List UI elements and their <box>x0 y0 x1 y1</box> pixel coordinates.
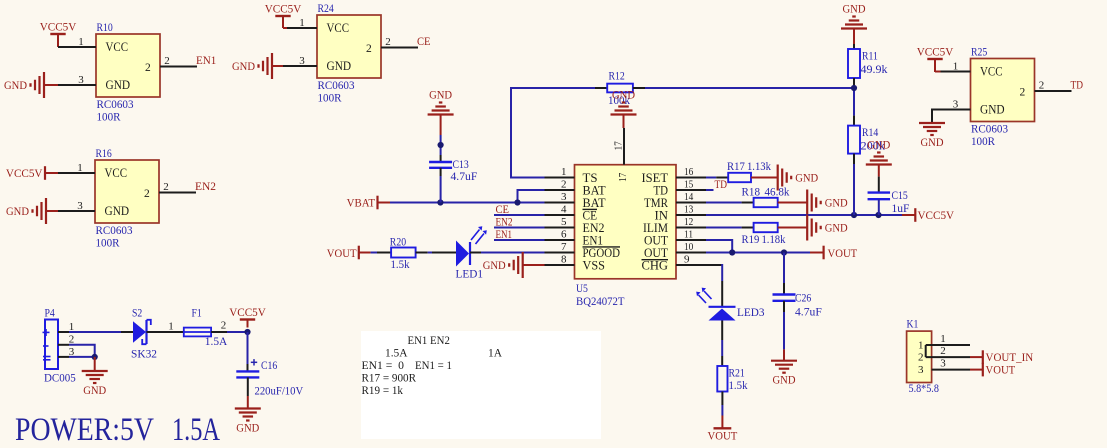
title text POWER:5V 1.5A <box>15 412 220 448</box>
svg-text:GND: GND <box>980 103 1005 117</box>
resistor network R16 RC0603 100R with net label EN2 <box>65 148 216 250</box>
note box EN1 EN2 settings <box>361 331 601 439</box>
svg-text:1: 1 <box>918 340 924 352</box>
ground GND at R24 pin 3 <box>232 53 287 79</box>
junction IN row at R14 <box>851 212 857 218</box>
diode S2 SK32 <box>121 308 157 361</box>
power port VOUT bottom <box>708 428 738 442</box>
svg-text:RC0603: RC0603 <box>971 124 1008 136</box>
wire K1 pin2 to VOUT_IN <box>926 356 983 358</box>
svg-text:17: 17 <box>617 172 629 182</box>
ground GND above C15 <box>866 140 892 177</box>
svg-text:EN1 = 1: EN1 = 1 <box>415 358 452 372</box>
junction R12 row <box>851 85 857 91</box>
wire VOUT to R20 <box>371 252 392 254</box>
ground GND below C26 <box>771 361 797 387</box>
svg-text:R11: R11 <box>862 51 878 63</box>
junction VCC5V / C16 <box>244 329 250 335</box>
svg-text:VCC5V: VCC5V <box>265 4 302 16</box>
resistor R14 200k <box>848 126 885 154</box>
svg-text:R19 = 1k: R19 = 1k <box>362 383 404 397</box>
svg-text:2: 2 <box>163 181 169 193</box>
svg-text:EN1 EN2: EN1 EN2 <box>408 333 450 347</box>
junction BAT branch <box>514 199 520 205</box>
svg-text:2: 2 <box>164 55 170 67</box>
resistor R20 1.5k <box>390 237 416 272</box>
svg-text:EN2: EN2 <box>195 181 216 193</box>
wire ISET to R17 <box>706 177 728 179</box>
svg-text:VOUT: VOUT <box>986 365 1016 377</box>
ground GND after R18 <box>807 190 848 216</box>
svg-text:3: 3 <box>953 99 959 111</box>
svg-text:GND: GND <box>843 4 866 16</box>
ground GND below R25 pin 3 wire <box>919 123 945 149</box>
junction OUT pins join <box>729 249 735 255</box>
svg-text:GND: GND <box>773 375 796 387</box>
svg-text:1.5A: 1.5A <box>172 412 220 448</box>
net label CE at pin 4 <box>494 204 545 216</box>
svg-text:GND: GND <box>825 198 848 210</box>
resistor R21 1.5k <box>717 366 747 392</box>
wire S2 to F1 <box>147 331 184 333</box>
junction OUT at C26 <box>781 249 787 255</box>
svg-text:2: 2 <box>144 188 150 200</box>
svg-text:GND: GND <box>612 90 635 102</box>
power port VCC5V right <box>915 208 954 222</box>
svg-text:VOUT: VOUT <box>327 248 357 260</box>
svg-text:VCC5V: VCC5V <box>6 168 43 180</box>
wire CHG pin9 to LED3 <box>706 264 722 307</box>
svg-text:R18 46.8k: R18 46.8k <box>742 187 790 199</box>
svg-text:VCC: VCC <box>105 166 128 180</box>
wire ground to C15 <box>878 177 880 193</box>
IC U5 BQ24072T battery charger <box>545 128 707 308</box>
svg-text:100R: 100R <box>318 93 342 105</box>
power port VCC5V main input <box>229 307 266 328</box>
wire ILIM to R19 <box>706 227 754 229</box>
svg-text:GND: GND <box>6 206 29 218</box>
svg-text:1: 1 <box>168 321 174 333</box>
svg-text:17: 17 <box>613 141 625 151</box>
svg-text:100R: 100R <box>971 136 995 148</box>
svg-text:3: 3 <box>940 358 946 370</box>
svg-text:3: 3 <box>561 191 567 203</box>
svg-text:RC0603: RC0603 <box>96 225 133 237</box>
wire OUT pin11 branch <box>706 240 732 253</box>
connector K1 5.8*5.8 <box>907 319 947 396</box>
svg-text:2: 2 <box>145 62 151 74</box>
svg-text:1: 1 <box>953 61 959 73</box>
wire C13 to VBAT row <box>440 168 442 203</box>
svg-text:9: 9 <box>684 254 690 266</box>
svg-text:R20: R20 <box>390 237 407 249</box>
wire OUT junction to C26 <box>783 253 785 295</box>
svg-text:1: 1 <box>940 333 946 345</box>
svg-text:VOUT: VOUT <box>708 431 738 443</box>
svg-text:2: 2 <box>918 352 924 364</box>
LED LED1 <box>456 226 487 280</box>
wire junction down to C16 <box>247 332 249 371</box>
svg-text:GND: GND <box>4 80 27 92</box>
svg-text:R25: R25 <box>971 47 988 59</box>
wire IN pin13 to VCC5V <box>706 214 915 216</box>
svg-text:11: 11 <box>684 229 693 241</box>
resistor R18 46.8k <box>742 187 790 208</box>
svg-text:GND: GND <box>106 78 131 92</box>
resistor network R24 RC0603 100R with net label CE <box>287 3 431 105</box>
svg-text:LED1: LED1 <box>456 269 484 281</box>
svg-text:R19 1.18k: R19 1.18k <box>742 234 786 246</box>
svg-text:C16: C16 <box>261 360 278 372</box>
wire R20 to LED1 <box>416 252 456 254</box>
svg-text:220uF/10V: 220uF/10V <box>255 386 304 398</box>
capacitor C26 4.7uF <box>773 293 822 319</box>
svg-text:2: 2 <box>561 179 567 191</box>
svg-text:R21: R21 <box>729 368 746 380</box>
svg-text:GND: GND <box>83 385 106 397</box>
svg-text:VCC5V: VCC5V <box>40 22 77 34</box>
svg-text:GND: GND <box>429 90 452 102</box>
wire K1 pin1 <box>926 345 970 357</box>
svg-text:U5: U5 <box>576 283 588 295</box>
svg-text:K1: K1 <box>907 319 919 331</box>
svg-text:DC005: DC005 <box>44 373 76 385</box>
svg-text:10: 10 <box>684 241 694 253</box>
svg-text:R16: R16 <box>96 148 113 160</box>
svg-text:S2: S2 <box>132 308 143 320</box>
svg-text:GND: GND <box>236 423 259 435</box>
LED LED3 <box>696 288 765 321</box>
svg-text:1A: 1A <box>488 346 502 360</box>
svg-text:3: 3 <box>78 74 84 86</box>
svg-text:1.5A: 1.5A <box>205 336 228 348</box>
svg-text:100R: 100R <box>96 238 120 250</box>
ground GND at IC pin 17 <box>611 90 637 129</box>
wire VBAT to BAT pins <box>390 202 545 204</box>
svg-text:1.5k: 1.5k <box>729 380 748 392</box>
ground GND at R16 pin 3 <box>6 198 65 224</box>
svg-text:2: 2 <box>366 43 372 55</box>
svg-text:2: 2 <box>221 320 227 332</box>
net label EN2 at pin 5 <box>494 217 545 229</box>
svg-text:2: 2 <box>1020 87 1026 99</box>
svg-text:TD: TD <box>715 179 728 191</box>
svg-text:CE: CE <box>417 36 431 48</box>
svg-text:GND: GND <box>825 223 848 235</box>
wire C26 to ground <box>783 301 785 361</box>
svg-text:VCC5V: VCC5V <box>918 210 955 222</box>
svg-text:VCC5V: VCC5V <box>917 47 954 59</box>
svg-text:1.5k: 1.5k <box>391 259 410 271</box>
wire R19 to ground <box>778 227 808 229</box>
svg-text:3: 3 <box>918 364 924 376</box>
svg-text:R24: R24 <box>318 3 335 15</box>
svg-text:GND: GND <box>232 61 255 73</box>
svg-text:4.7uF: 4.7uF <box>451 171 478 183</box>
wire R12 to R11-R14 junction <box>633 87 854 89</box>
wire OUT pin10 to VOUT <box>706 252 823 254</box>
ground GND below P4 <box>82 357 108 397</box>
power port VBAT <box>347 196 390 210</box>
wire LED3 to R21 <box>721 321 723 367</box>
power port VOUT at LED1 branch <box>327 246 371 260</box>
power port VOUT right <box>824 246 858 260</box>
svg-text:C15: C15 <box>892 190 909 202</box>
svg-text:GND: GND <box>795 173 818 185</box>
power port VOUT at K1 <box>983 363 1015 377</box>
svg-text:2: 2 <box>385 36 391 48</box>
wire TS pin1 loop to R12 row <box>511 88 607 178</box>
svg-text:VSS: VSS <box>583 258 606 272</box>
svg-text:GND: GND <box>867 140 890 152</box>
wire C15 to IN row <box>878 199 880 215</box>
ground GND above C13 <box>428 90 454 136</box>
wire LED1 to PGOOD pin 7 <box>470 252 545 254</box>
svg-text:13: 13 <box>684 204 694 216</box>
svg-text:49.9k: 49.9k <box>861 64 888 76</box>
svg-text:4.7uF: 4.7uF <box>795 307 822 319</box>
ground GND above R11 <box>841 4 867 50</box>
svg-text:RC0603: RC0603 <box>318 80 355 92</box>
junction above C13 <box>438 142 444 148</box>
svg-text:POWER:5V: POWER:5V <box>15 412 154 448</box>
wire R14 to IN row <box>853 154 855 215</box>
resistor R11 49.9k <box>848 49 888 78</box>
connector P4 DC005 <box>43 308 76 385</box>
svg-text:F1: F1 <box>192 308 203 320</box>
svg-text:8: 8 <box>561 254 567 266</box>
svg-text:1: 1 <box>78 36 84 48</box>
svg-text:6: 6 <box>561 229 567 241</box>
svg-text:4: 4 <box>561 204 567 216</box>
svg-text:14: 14 <box>684 191 694 203</box>
svg-text:100R: 100R <box>97 112 121 124</box>
power port VOUT_IN <box>983 350 1034 364</box>
svg-text:R10: R10 <box>97 22 114 34</box>
svg-text:EN1: EN1 <box>196 55 217 67</box>
resistor network R10 RC0603 100R with net label EN1 <box>66 22 217 124</box>
net label TD at pin 15 <box>706 179 727 191</box>
resistor network R25 RC0603 100R with net label TD <box>941 47 1084 149</box>
power port VCC5V at R25 pin 1 <box>917 47 954 73</box>
svg-text:VCC: VCC <box>106 40 129 54</box>
svg-text:VCC5V: VCC5V <box>229 307 266 319</box>
ground GND after R19 <box>807 215 848 241</box>
svg-text:R14: R14 <box>862 127 879 139</box>
junction at P4 ground wire <box>92 354 98 360</box>
svg-text:2: 2 <box>940 345 946 357</box>
svg-text:R17 1.13k: R17 1.13k <box>727 161 771 173</box>
svg-text:VOUT: VOUT <box>828 248 858 260</box>
power port VCC5V at R16 pin 1 <box>6 166 65 180</box>
svg-text:7: 7 <box>561 241 567 253</box>
capacitor C13 4.7uF <box>429 159 477 183</box>
fuse F1 1.5A <box>168 308 228 349</box>
wire F1 to VCC5V junction <box>211 331 247 333</box>
svg-text:GND: GND <box>483 260 506 272</box>
wire BAT pin2 branch <box>518 190 545 203</box>
power port VCC5V at R24 pin 1 <box>265 4 302 29</box>
junction IN row at C15 <box>875 212 881 218</box>
svg-text:C26: C26 <box>795 293 812 305</box>
svg-text:5: 5 <box>561 216 567 228</box>
svg-text:1: 1 <box>561 166 567 178</box>
svg-text:GND: GND <box>327 59 352 73</box>
capacitor C16 220uF/10V <box>236 359 304 397</box>
svg-text:RC0603: RC0603 <box>97 99 134 111</box>
power port VCC5V at R10 pin 1 <box>40 22 77 48</box>
wire C16 to ground <box>247 377 249 408</box>
ground GND at R10 pin 3 <box>4 72 66 98</box>
svg-text:GND: GND <box>921 137 944 149</box>
ground GND at VSS pin 8 <box>483 252 545 278</box>
svg-text:1: 1 <box>77 162 83 174</box>
svg-text:C13: C13 <box>453 159 470 171</box>
resistor R17 1.13k <box>727 161 771 182</box>
svg-text:SK32: SK32 <box>131 349 157 361</box>
svg-text:VBAT: VBAT <box>347 198 375 210</box>
wire P4 pin1 to S2 <box>69 331 121 333</box>
svg-text:12: 12 <box>684 216 693 228</box>
resistor R12 100k <box>607 71 633 108</box>
svg-text:VCC: VCC <box>980 65 1003 79</box>
resistor R19 1.18k <box>742 223 786 246</box>
wire ground to C13 <box>440 135 442 162</box>
ground GND after R17 <box>778 165 819 191</box>
svg-text:3: 3 <box>299 55 305 67</box>
wire TMR to R18 <box>706 202 754 204</box>
svg-text:1: 1 <box>299 17 305 29</box>
capacitor C15 1uF <box>868 190 910 215</box>
wire R21 to VOUT port <box>721 392 723 428</box>
ground GND below C16 <box>235 409 261 435</box>
net label EN1 at pin 6 <box>494 229 545 241</box>
wire K1 pin3 to VOUT <box>932 369 983 371</box>
svg-text:VOUT_IN: VOUT_IN <box>986 352 1034 364</box>
svg-text:3: 3 <box>77 200 83 212</box>
svg-text:VCC: VCC <box>327 21 350 35</box>
svg-text:16: 16 <box>684 166 694 178</box>
wire R25 pin 3 to ground <box>932 110 941 124</box>
wire P4 pins 2-3 join to ground <box>69 345 95 357</box>
wire R11 to R14 <box>853 78 855 126</box>
wire R18 to ground <box>778 202 808 204</box>
wire R17 to ground <box>751 177 778 179</box>
svg-text:TD: TD <box>1071 80 1084 92</box>
svg-text:P4: P4 <box>45 308 56 320</box>
svg-text:R12: R12 <box>609 71 626 83</box>
svg-text:2: 2 <box>1039 80 1045 92</box>
svg-text:15: 15 <box>684 179 694 191</box>
junction at C13 column <box>437 199 443 205</box>
svg-text:BQ24072T: BQ24072T <box>576 296 625 308</box>
svg-text:5.8*5.8: 5.8*5.8 <box>909 383 940 395</box>
svg-text:1uF: 1uF <box>892 203 910 215</box>
svg-text:GND: GND <box>105 204 130 218</box>
svg-text:LED3: LED3 <box>737 307 765 319</box>
